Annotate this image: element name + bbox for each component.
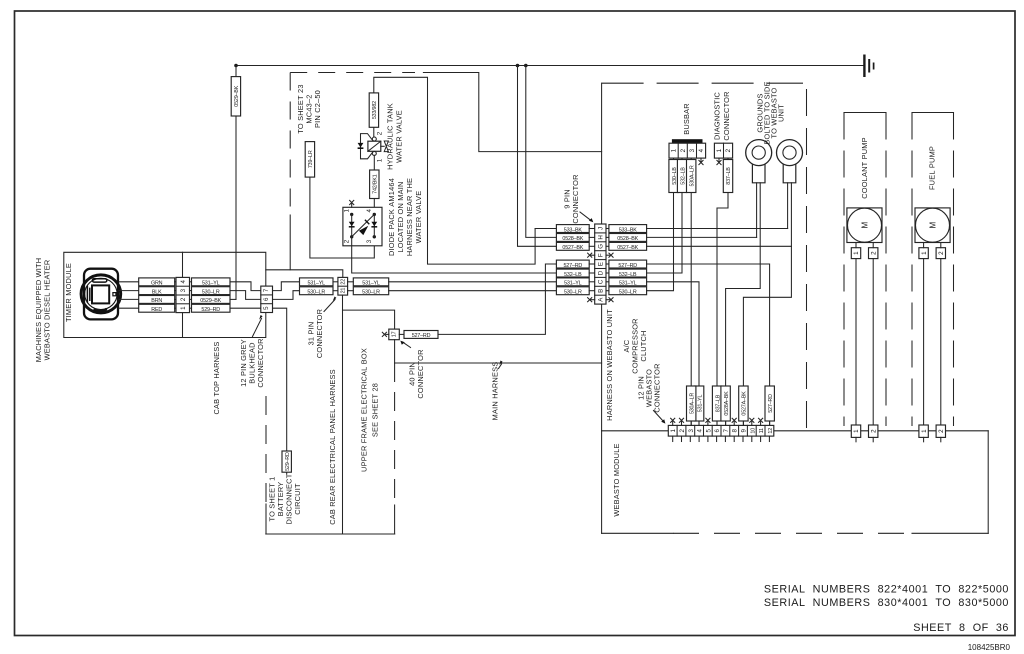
- wire label 739-LR (vertical): [305, 142, 314, 178]
- svg-text:0527–BK: 0527–BK: [562, 245, 583, 251]
- diode pack pin 3 node: [373, 235, 376, 238]
- svg-text:MAIN HARNESS: MAIN HARNESS: [491, 362, 500, 421]
- wire 530-LR long run to 9-pin B: [348, 290, 354, 292]
- label A/C COMPRESSOR CLUTCH: [622, 318, 648, 373]
- wire 531-YL long run to 9-pin C: [348, 281, 354, 283]
- diode pack pin 2 node: [350, 235, 353, 238]
- svg-text:CLUTCH: CLUTCH: [639, 330, 648, 361]
- svg-text:FUEL PUMP: FUEL PUMP: [928, 146, 937, 190]
- svg-text:J: J: [598, 227, 605, 230]
- svg-text:BLK: BLK: [152, 289, 162, 295]
- ground ring 1 wire right strand to 12-pin 7: [726, 183, 761, 426]
- wire busbar pin3 to 12-pin 3: [690, 158, 692, 425]
- timer module enclosure box: [64, 252, 266, 337]
- upper frame box top boundary jog: [343, 310, 395, 329]
- label 9 PIN CONNECTOR: [563, 174, 581, 223]
- svg-text:CONNECTOR: CONNECTOR: [256, 338, 265, 387]
- wire label 530-LB under busbar 1: [669, 160, 678, 193]
- svg-text:CAB TOP HARNESS: CAB TOP HARNESS: [212, 341, 221, 414]
- 12 pin webasto connector strip: [668, 425, 774, 436]
- cab rear box left boundary dashed: [265, 396, 267, 506]
- note TO SHEET 1 BATTERY DISCONNECT CIRCUIT: [268, 473, 303, 524]
- svg-text:CONNECTOR: CONNECTOR: [722, 91, 731, 140]
- ground symbol at rail right end: [864, 55, 873, 78]
- svg-text:4: 4: [366, 209, 373, 213]
- wire label 742/BK1 (vertical): [370, 170, 379, 199]
- svg-text:CONNECTOR: CONNECTOR: [416, 349, 425, 398]
- svg-text:2: 2: [870, 251, 877, 255]
- coolant pump wires to module: [856, 259, 873, 425]
- wire label 0528A-BK (vertical) above 12-pin 7: [721, 386, 730, 421]
- svg-text:LOCATED ON MAIN: LOCATED ON MAIN: [396, 181, 405, 252]
- wire diagnostic pin2 to 12-pin 6: [717, 158, 728, 425]
- 9-pin F row no-connect stubs: [588, 253, 614, 257]
- svg-text:1: 1: [921, 251, 928, 255]
- svg-text:7: 7: [263, 288, 270, 292]
- svg-text:B: B: [598, 289, 605, 293]
- wire timer box edge to 31-pin 22: [266, 270, 343, 278]
- svg-text:531–YL: 531–YL: [362, 281, 380, 287]
- svg-text:0528–BK: 0528–BK: [617, 236, 638, 242]
- leader to pin 17: [400, 341, 410, 348]
- wire row E 527-RD to 12-pin 12: [647, 264, 770, 425]
- svg-text:530–LR: 530–LR: [307, 290, 325, 296]
- svg-text:533–BK: 533–BK: [564, 227, 583, 233]
- wire valve pin2 to 533-BK run: [374, 77, 535, 264]
- svg-text:8: 8: [732, 429, 739, 433]
- svg-text:11: 11: [759, 428, 765, 433]
- diagnostic connector pins 1 2: [714, 143, 732, 158]
- svg-text:1: 1: [670, 429, 677, 433]
- label DIODE PACK AM1464 LOCATED ON MAIN HARNESS NEAR THE WATER VALVE: [387, 178, 423, 256]
- svg-text:CONNECTOR: CONNECTOR: [653, 363, 662, 412]
- svg-text:BRN: BRN: [151, 298, 162, 304]
- webasto unit harness box left edge lower: [601, 304, 603, 431]
- webasto module box left edge: [601, 431, 603, 534]
- svg-text:7: 7: [723, 429, 730, 433]
- svg-text:1: 1: [343, 209, 350, 213]
- note MACHINES EQUIPPED WITH WEBASTO DIESEL HEATER: [34, 258, 52, 363]
- ground ring 2 wire left strand to row J: [787, 183, 789, 229]
- svg-text:1: 1: [853, 251, 860, 255]
- svg-text:531–YL: 531–YL: [564, 281, 582, 287]
- svg-text:WEBASTO MODULE: WEBASTO MODULE: [612, 443, 621, 516]
- fuel pump wires to module: [924, 259, 941, 425]
- wire label 531-YL right of 31-pin: [353, 278, 388, 287]
- svg-text:3: 3: [366, 239, 373, 243]
- svg-text:2: 2: [377, 131, 384, 135]
- wire row D 532-LB to busbar 2: [647, 158, 682, 273]
- svg-text:530A–LR: 530A–LR: [689, 393, 695, 414]
- svg-text:1: 1: [853, 429, 860, 433]
- svg-text:532–LB: 532–LB: [619, 272, 637, 278]
- wire label 530A-LR under busbar 3: [687, 160, 696, 193]
- top power rail wire: [236, 65, 864, 67]
- wire label 532-LB under busbar 2: [677, 160, 686, 193]
- svg-text:530–LR: 530–LR: [202, 289, 220, 295]
- svg-text:527–RD: 527–RD: [618, 263, 637, 269]
- timer 4-pin connector strip: [176, 277, 190, 312]
- label DIAGNOSTIC CONNECTOR: [713, 91, 732, 140]
- svg-text:3: 3: [689, 148, 696, 152]
- wire 533-BK row J left segment: [535, 228, 556, 230]
- diode pack pin 1 node: [350, 213, 353, 216]
- wire label 837-LB (vertical) above 12-pin 6: [712, 386, 721, 421]
- svg-text:4: 4: [697, 429, 704, 433]
- 12-pin lower stubs: [673, 436, 770, 441]
- coolant pump boundary box: [844, 113, 886, 427]
- webasto module box top edge: [602, 430, 989, 432]
- svg-text:4: 4: [180, 280, 187, 284]
- busbar bar: [672, 139, 703, 143]
- svg-text:531–YL: 531–YL: [202, 281, 220, 287]
- svg-text:HARNESS NEAR THE: HARNESS NEAR THE: [405, 178, 414, 256]
- svg-text:3: 3: [180, 288, 187, 292]
- leader to 9 pin connector: [580, 212, 593, 222]
- coolant pump module connector pins 1 2: [851, 425, 878, 442]
- svg-text:COOLANT PUMP: COOLANT PUMP: [860, 137, 869, 199]
- wire row C 531-YL to 12-pin 4: [647, 282, 699, 426]
- svg-text:0529–BK: 0529–BK: [200, 298, 221, 304]
- svg-text:2: 2: [180, 297, 187, 301]
- wire label 530-LR right of 31-pin: [353, 287, 388, 296]
- svg-text:527–RD: 527–RD: [564, 263, 583, 269]
- svg-text:UNIT: UNIT: [777, 104, 786, 122]
- webasto module box right edge: [987, 431, 989, 534]
- diagnostic pin1 no-connect: [717, 158, 721, 164]
- svg-text:H: H: [598, 235, 605, 239]
- wire row H 0528-BK to ground ring 1: [647, 236, 757, 238]
- label 12 PIN WEBASTO CONNECTOR: [637, 363, 662, 412]
- svg-text:531–YL: 531–YL: [308, 281, 326, 287]
- svg-text:1: 1: [377, 158, 384, 162]
- svg-text:533–BK: 533–BK: [619, 227, 638, 233]
- svg-text:C: C: [598, 279, 605, 284]
- svg-text:SERIAL NUMBERS 830*4001 TO: SERIAL NUMBERS 830*4001 TO 830*5000: [764, 597, 1009, 609]
- junction node at 0529-BK riser: [234, 64, 238, 68]
- svg-text:BUSBAR: BUSBAR: [682, 103, 691, 135]
- coolant pump motor: [847, 208, 882, 243]
- svg-text:CONNECTOR: CONNECTOR: [571, 174, 580, 223]
- 40 pin connector pin 17: [382, 329, 399, 363]
- svg-text:530–LR: 530–LR: [619, 290, 637, 296]
- no-connect x mark: [350, 200, 354, 204]
- hydraulic tank water valve solenoid: [358, 131, 389, 162]
- svg-text:529–RD: 529–RD: [285, 452, 291, 471]
- main harness boundary line: [395, 362, 602, 364]
- 12-pin no-connect marks above pins 1 2 5 8 10 11: [671, 418, 763, 425]
- 31 pin connector pins 21 22: [338, 277, 348, 295]
- svg-text:RED: RED: [151, 307, 162, 313]
- svg-text:UPPER FRAME ELECTRICAL BOX: UPPER FRAME ELECTRICAL BOX: [360, 348, 369, 472]
- svg-text:0527A–BK: 0527A–BK: [742, 391, 748, 416]
- webasto module box bottom edge solid left: [602, 532, 673, 534]
- timer wire row 4 RED: [119, 304, 176, 313]
- 9-pin connector right labels: [606, 225, 647, 296]
- wire label 531-YL (vertical) above 12-pin 4: [694, 386, 703, 421]
- harness boundary dashed horizontal y=72.5: [290, 72, 415, 74]
- label 31 PIN CONNECTOR: [307, 309, 325, 358]
- diode pack right diode: [371, 214, 377, 236]
- boundary segment joining wire at 269.8: [289, 215, 291, 270]
- svg-text:5: 5: [263, 306, 270, 310]
- svg-text:22: 22: [340, 279, 346, 285]
- timer wire row 2 BLK: [119, 287, 176, 296]
- timer wire row 3 BRN: [119, 296, 176, 305]
- svg-text:533/982: 533/982: [372, 101, 378, 119]
- wire label 533/982 (vertical): [369, 93, 378, 127]
- diode pack diagonal diode pin2 to pin4: [352, 214, 375, 236]
- svg-text:9: 9: [741, 429, 748, 433]
- svg-text:530A–LR: 530A–LR: [689, 165, 695, 186]
- wire 530-LR row from timer pin3: [190, 287, 261, 300]
- fuel pump boundary box: [912, 113, 954, 427]
- upper frame box right boundary dashed: [394, 363, 396, 507]
- svg-text:2: 2: [725, 148, 732, 152]
- cab top harness boundary dashed vertical x=290: [289, 73, 291, 213]
- svg-text:6: 6: [263, 297, 270, 301]
- svg-text:CIRCUIT: CIRCUIT: [293, 483, 302, 515]
- svg-text:HARNESS ON WEBASTO UNIT: HARNESS ON WEBASTO UNIT: [605, 309, 614, 421]
- svg-text:17: 17: [392, 331, 398, 337]
- svg-text:TIMER MODULE: TIMER MODULE: [64, 263, 73, 322]
- upper frame electrical box bottom edge: [266, 533, 395, 535]
- svg-text:0527–BK: 0527–BK: [617, 245, 638, 251]
- svg-text:0528–BK: 0528–BK: [562, 236, 583, 242]
- wire diode pin2 to 532-LB row D: [352, 237, 557, 273]
- svg-text:1: 1: [921, 429, 928, 433]
- wire 0529-BK row from timer pin2: [190, 296, 237, 305]
- junction node rail drop 2: [524, 64, 528, 68]
- upper frame box right boundary solid: [394, 505, 396, 534]
- svg-text:DIODE PACK AM1464: DIODE PACK AM1464: [387, 178, 396, 256]
- wire 0529-BK riser from timer row 3 to rail: [235, 66, 237, 300]
- wire label 531-YL right of bulkhead: [300, 278, 338, 287]
- diode pack no-connect stub above pin1: [351, 204, 353, 208]
- svg-text:WATER VALVE: WATER VALVE: [395, 110, 404, 163]
- diode pack AM1464 box: [343, 207, 382, 246]
- 12 pin grey bulkhead connector pins 7 6 5: [261, 286, 273, 312]
- svg-text:DIAGNOSTIC: DIAGNOSTIC: [713, 92, 722, 140]
- svg-text:10: 10: [750, 428, 756, 434]
- timer module device drawing: [81, 269, 121, 320]
- 12-pin stubs label to connector on wired pins: [691, 421, 769, 425]
- leader to 12 pin webasto connector: [654, 411, 666, 424]
- label GROUNDS BOLTED TO SIDE TO WEBASTO UNIT: [756, 81, 786, 144]
- wire row J 533-BK to ground ring 2: [647, 228, 788, 230]
- svg-text:CONNECTOR: CONNECTOR: [315, 309, 324, 358]
- rail drop wire to 0528-BK row H: [526, 66, 557, 238]
- ground ring 2 wire right strand to 12-pin 9: [743, 183, 791, 426]
- busbar pin strip 1-4: [669, 143, 706, 158]
- svg-text:F: F: [598, 253, 605, 257]
- cab rear / upper frame boundary divider: [342, 295, 344, 534]
- webasto unit harness box top edge dashed: [602, 82, 803, 84]
- svg-text:739–LR: 739–LR: [308, 150, 314, 168]
- svg-text:6: 6: [714, 429, 721, 433]
- svg-text:1: 1: [716, 148, 723, 152]
- svg-text:527–RD: 527–RD: [412, 333, 431, 339]
- svg-text:0529–BK: 0529–BK: [234, 85, 240, 106]
- wire label 837-LB under diagnostic: [723, 160, 732, 193]
- harness boundary solid segment to webasto unit box: [423, 73, 601, 152]
- svg-text:532–LB: 532–LB: [564, 272, 582, 278]
- wire label 0529-BK (vertical): [231, 77, 240, 116]
- wire label 529-RD (vertical): [282, 451, 291, 472]
- svg-text:2: 2: [870, 429, 877, 433]
- svg-text:2: 2: [680, 148, 687, 152]
- svg-text:531–YL: 531–YL: [619, 281, 637, 287]
- svg-text:SEE SHEET 28: SEE SHEET 28: [371, 383, 380, 437]
- webasto module box bottom edge dashed middle: [673, 532, 912, 534]
- wire 529-RD row from timer pin1: [190, 304, 261, 313]
- svg-text:E: E: [598, 262, 605, 266]
- wire label 530A-LR (vertical) above 12-pin 3: [687, 386, 696, 421]
- svg-text:21: 21: [340, 288, 346, 294]
- label UPPER FRAME ELECTRICAL BOX SEE SHEET 28: [360, 348, 380, 472]
- svg-text:0528A–BK: 0528A–BK: [724, 391, 730, 416]
- busbar pin4 no-connect: [699, 158, 703, 164]
- svg-text:108425BR0: 108425BR0: [968, 643, 1011, 652]
- svg-text:5: 5: [705, 429, 712, 433]
- svg-text:WATER VALVE: WATER VALVE: [414, 191, 423, 244]
- diode pack pin 4 node: [373, 213, 376, 216]
- ground ring terminal 2: [777, 140, 803, 183]
- svg-text:529–RD: 529–RD: [201, 307, 220, 313]
- note TO SHEET 23 MC43-2 PIN C2-50: [296, 84, 322, 133]
- wire valve pin1 to diode pack pin4: [373, 155, 375, 214]
- ground ring 1 wire left strand to row H: [756, 183, 758, 238]
- svg-text:G: G: [598, 244, 605, 249]
- junction node rail drop 1: [516, 64, 520, 68]
- leader to bulkhead connector: [253, 315, 263, 337]
- svg-text:530–LR: 530–LR: [362, 290, 380, 296]
- svg-text:D: D: [598, 270, 605, 275]
- webasto unit harness box left edge upper: [601, 83, 603, 224]
- ground ring terminal 1: [746, 140, 772, 183]
- svg-text:WEBASTO DIESEL HEATER: WEBASTO DIESEL HEATER: [43, 260, 52, 361]
- 9 pin connector strip: [595, 224, 606, 304]
- svg-text:742/BK1: 742/BK1: [373, 174, 379, 193]
- label HYDRAULIC TANK WATER VALVE: [386, 103, 404, 170]
- fuel pump motor: [915, 208, 950, 243]
- wire bulkhead pin7 to 531-YL row: [273, 282, 300, 291]
- svg-text:M: M: [861, 222, 870, 229]
- webasto module box bottom edge solid right: [912, 532, 988, 534]
- svg-text:HYDRAULIC TANK: HYDRAULIC TANK: [386, 103, 395, 170]
- svg-text:2: 2: [679, 429, 686, 433]
- svg-text:837–LB: 837–LB: [726, 167, 732, 185]
- wire row G 0527-BK to ground ring 2: [647, 245, 792, 247]
- svg-text:2: 2: [938, 251, 945, 255]
- svg-text:SHEET 8 OF 36: SHEET 8 OF 36: [913, 622, 1009, 634]
- svg-text:3: 3: [688, 429, 695, 433]
- wire 739-LR riser to sheet 23: [310, 142, 374, 258]
- wire 529-RD from bulkhead pin5 to battery disconnect: [273, 308, 287, 474]
- webasto unit harness box right edge dashed: [806, 89, 808, 431]
- svg-text:M: M: [929, 222, 938, 229]
- label 40 PIN CONNECTOR: [408, 349, 426, 398]
- wire label 527-RD (vertical) above 12-pin 12: [765, 386, 774, 421]
- svg-text:530–LR: 530–LR: [564, 290, 582, 296]
- coolant pump motor pins 1 2: [851, 243, 878, 259]
- wire label 530-LR right of bulkhead: [300, 287, 338, 296]
- 9-pin connector left labels: [556, 225, 594, 296]
- svg-text:SERIAL NUMBERS 822*4001 TO: SERIAL NUMBERS 822*4001 TO 822*5000: [764, 584, 1009, 596]
- timer wire row 1 GRN: [119, 278, 176, 287]
- fuel pump module connector pins 1 2: [919, 425, 946, 442]
- leader to 31 pin connector: [324, 297, 336, 312]
- cab rear box left boundary solid: [265, 504, 267, 534]
- leader main harness: [499, 361, 503, 369]
- svg-text:2: 2: [938, 429, 945, 433]
- svg-text:GRN: GRN: [151, 281, 163, 287]
- svg-text:527–RD: 527–RD: [768, 394, 774, 413]
- svg-text:2: 2: [343, 239, 350, 243]
- wire 531-YL row from timer pin4: [190, 278, 261, 291]
- svg-text:531–YL: 531–YL: [697, 395, 703, 413]
- label 12 PIN GREY BULKHEAD CONNECTOR: [239, 338, 265, 387]
- svg-text:CAB REAR ELECTRICAL PANEL HARN: CAB REAR ELECTRICAL PANEL HARNESS: [328, 369, 337, 525]
- svg-text:532–LB: 532–LB: [680, 167, 686, 185]
- 9-pin A row no-connect stubs: [588, 298, 614, 302]
- svg-text:12: 12: [768, 428, 774, 434]
- diode pack left diode: [349, 214, 355, 236]
- svg-text:PIN C2–50: PIN C2–50: [313, 90, 322, 128]
- wire 527-RD from pin17 to 9-pin E: [399, 264, 556, 339]
- wire bulkhead pin6 to 530-LR row: [273, 291, 300, 300]
- rail drop wire to 0527-BK row G: [518, 66, 557, 247]
- svg-text:1: 1: [180, 306, 187, 310]
- timer module connector strip centerline: [182, 252, 184, 337]
- svg-text:4: 4: [698, 148, 705, 152]
- svg-text:1: 1: [671, 148, 678, 152]
- wire label 0527A-BK (vertical) above 12-pin 9: [739, 386, 748, 421]
- fuel pump motor pins 1 2: [919, 243, 946, 259]
- wire row B 530-LR to busbar 1: [647, 158, 674, 291]
